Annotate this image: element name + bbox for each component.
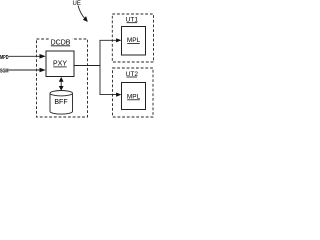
svg-text:SGM: SGM <box>0 69 9 75</box>
database BFF cylinder <box>50 91 73 115</box>
svg-text:MPD: MPD <box>0 55 9 61</box>
block PXY proxy box <box>46 51 74 77</box>
block MPL1 box <box>122 27 146 56</box>
block UT2 dashed box <box>113 68 154 117</box>
block UT1 dashed box <box>112 14 153 62</box>
wire trunk vertical <box>99 40 101 94</box>
block MPL2 box <box>122 83 146 110</box>
block DCDB dashed box <box>37 39 88 117</box>
wire MPD arrow into PXY <box>9 55 41 57</box>
wire PXY to trunk <box>74 65 100 67</box>
svg-text:UE: UE <box>73 1 81 7</box>
wire UE leader arrow <box>78 6 85 19</box>
wire branch to MPL2 <box>100 94 118 96</box>
wire branch to MPL1 <box>100 39 118 41</box>
svg-text:PXY: PXY <box>53 61 67 68</box>
wire SGM arrow into PXY <box>9 69 41 71</box>
svg-text:BFF: BFF <box>54 99 67 106</box>
wire PXY-BFF double arrow <box>60 80 62 89</box>
